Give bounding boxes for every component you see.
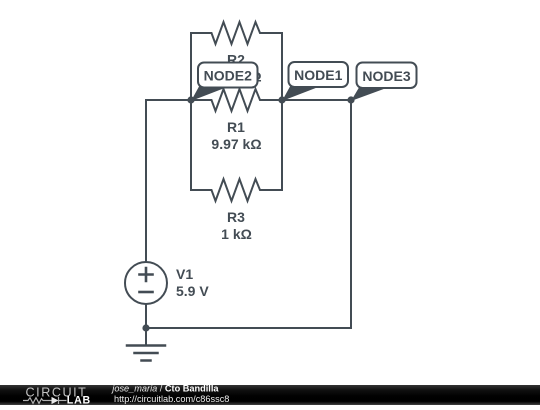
- CircuitLab logo diode triangle: [52, 397, 59, 404]
- wire right vertical of R2 loop: [281, 33, 283, 100]
- resistor R2: [191, 22, 282, 44]
- footer bar: [0, 385, 540, 405]
- svg-text:9.97 kΩ: 9.97 kΩ: [211, 136, 261, 152]
- svg-text:jose_maria / Cto Bandilla: jose_maria / Cto Bandilla: [110, 385, 219, 393]
- V1 minus sign: [140, 291, 153, 294]
- voltage source V1 circle: [125, 262, 167, 304]
- node callout NODE2 box: [198, 63, 258, 88]
- wire right vertical of R3 loop: [281, 100, 283, 190]
- svg-text:V1: V1: [176, 266, 193, 282]
- node callout NODE1 pointer: [282, 87, 317, 102]
- wire left vertical of R2 loop: [190, 33, 192, 100]
- junction node at NODE2: [187, 96, 194, 103]
- ground symbol bars: [127, 346, 165, 361]
- node callout NODE1 box: [289, 62, 349, 87]
- wire ground rail horizontal: [146, 327, 351, 329]
- svg-text:NODE1: NODE1: [294, 67, 342, 83]
- svg-text:NODE2: NODE2: [204, 68, 252, 84]
- wire from node2 junction to V1 (left vertical): [145, 100, 147, 262]
- wire node1 to node3 horizontal: [282, 99, 351, 101]
- svg-text:R3: R3: [227, 209, 245, 225]
- junction node at NODE3: [347, 96, 354, 103]
- wire left vertical of R3 loop: [190, 100, 192, 190]
- wire V1 bottom to ground junction: [145, 304, 147, 346]
- wire right vertical from node3 down: [350, 100, 352, 328]
- node callout NODE3 pointer: [351, 88, 385, 102]
- svg-text:5.9 V: 5.9 V: [176, 283, 209, 299]
- svg-text:R1: R1: [227, 119, 245, 135]
- svg-text:1 kΩ: 1 kΩ: [221, 226, 252, 242]
- svg-text:LAB: LAB: [67, 395, 91, 405]
- junction node at ground rail: [142, 324, 149, 331]
- node callout NODE2 pointer: [191, 87, 226, 102]
- resistor R1: [191, 89, 282, 111]
- V1 plus sign: [140, 268, 153, 281]
- wire main horizontal left segment: [146, 99, 191, 101]
- resistor R3: [191, 179, 282, 201]
- svg-text:http://circuitlab.com/c86ssc8: http://circuitlab.com/c86ssc8: [114, 394, 229, 404]
- svg-text:NODE3: NODE3: [362, 68, 410, 84]
- junction node at NODE1: [278, 96, 285, 103]
- node callout NODE3 box: [357, 63, 417, 89]
- CircuitLab logo resistor+diode glyph: [23, 397, 67, 404]
